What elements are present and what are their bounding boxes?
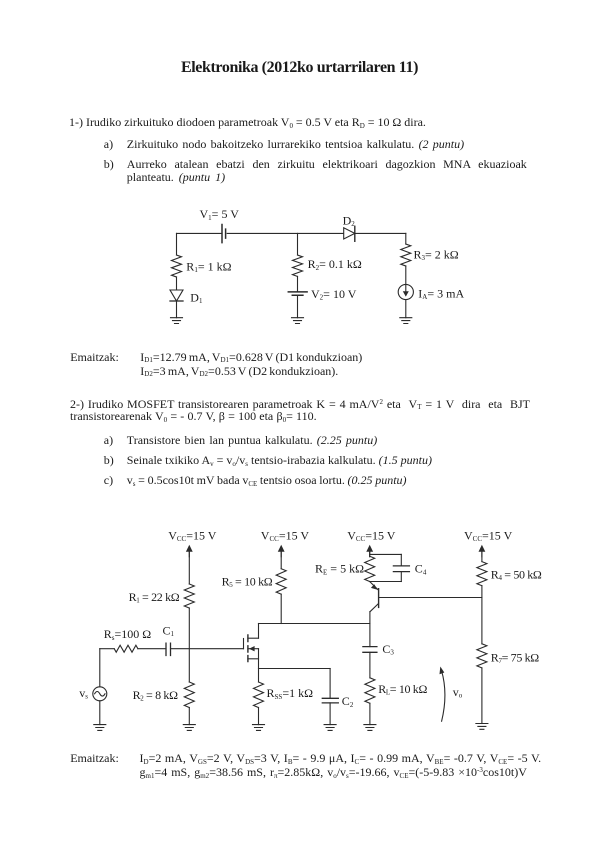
svg-text:VCC​=15 V: VCC​=15 V (261, 528, 310, 543)
svg-text:R4​ = 50 kΩ: R4​ = 50 kΩ (491, 567, 542, 582)
svg-text:RE​ = 5 kΩ: RE​ = 5 kΩ (315, 562, 364, 577)
svg-text:C1​: C1​ (163, 623, 175, 638)
svg-text:C2​: C2​ (342, 694, 354, 709)
svg-text:R3​= 2 kΩ: R3​= 2 kΩ (414, 247, 459, 262)
svg-text:RL​= 10 kΩ: RL​= 10 kΩ (378, 682, 427, 697)
svg-text:V1​= 5 V: V1​= 5 V (200, 207, 240, 222)
svg-text:VCC​=15 V: VCC​=15 V (464, 528, 513, 543)
svg-text:R7​= 75 kΩ: R7​= 75 kΩ (491, 650, 539, 665)
svg-text:vs​: vs​ (79, 686, 88, 701)
svg-text:D2​: D2​ (343, 214, 356, 229)
svg-text:R2​= 0.1 kΩ: R2​= 0.1 kΩ (308, 257, 362, 272)
svg-text:vo​: vo​ (453, 685, 463, 700)
svg-text:D1​: D1​ (190, 291, 203, 306)
svg-text:C3​: C3​ (382, 642, 394, 657)
svg-text:R1​= 1 kΩ: R1​= 1 kΩ (186, 260, 231, 275)
svg-text:Rs​=100 Ω: Rs​=100 Ω (104, 627, 152, 642)
svg-text:VCC​=15 V: VCC​=15 V (347, 528, 396, 543)
svg-text:RSS​=1 kΩ: RSS​=1 kΩ (267, 686, 314, 701)
svg-text:C4​: C4​ (415, 562, 427, 577)
svg-text:VCC​=15 V: VCC​=15 V (168, 528, 217, 543)
svg-text:IA​= 3 mA: IA​= 3 mA (418, 286, 464, 301)
svg-text:V2​= 10 V: V2​= 10 V (311, 287, 357, 302)
svg-text:R2​ = 8 kΩ: R2​ = 8 kΩ (133, 688, 178, 703)
svg-text:R5​ = 10 kΩ: R5​ = 10 kΩ (222, 574, 273, 589)
svg-text:R1​ = 22 kΩ: R1​ = 22 kΩ (129, 590, 180, 605)
